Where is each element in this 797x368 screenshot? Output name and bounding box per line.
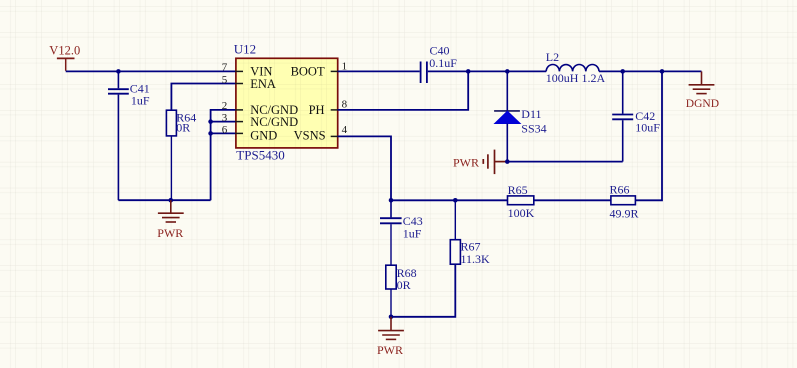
node junction pin6 <box>208 131 213 136</box>
pin 6 stub <box>235 132 243 134</box>
wire C42 bottom lead <box>622 120 624 161</box>
wire R68 bottom lead <box>390 289 392 317</box>
wire PH pin8 riser <box>338 71 469 110</box>
svg-text:D11: D11 <box>521 107 541 121</box>
wire feedback row <box>391 199 508 201</box>
wire BOOT to C40 <box>338 70 420 72</box>
svg-text:1uF: 1uF <box>403 226 422 240</box>
pin 2 stub <box>235 109 243 111</box>
svg-text:V12.0: V12.0 <box>49 44 80 58</box>
wire C42 top lead <box>622 71 624 113</box>
svg-text:PWR: PWR <box>157 226 183 240</box>
node junction at C41 tap <box>116 69 121 74</box>
svg-text:10uF: 10uF <box>635 121 660 135</box>
wire pin6 stub <box>211 132 236 134</box>
wire C40 to PH node <box>428 70 546 72</box>
node junction PH riser <box>466 69 471 74</box>
node junction D11 anode <box>505 159 510 164</box>
diode D11 <box>494 110 520 112</box>
capacitor C42 <box>612 115 633 120</box>
svg-text:SS34: SS34 <box>521 122 546 136</box>
capacitor C41 <box>108 89 129 94</box>
svg-text:L2: L2 <box>546 50 559 64</box>
wire C43 to R68 <box>390 224 392 265</box>
svg-text:TPS5430: TPS5430 <box>236 148 284 163</box>
svg-text:0R: 0R <box>397 278 411 292</box>
wire ENA to R64 <box>171 84 236 111</box>
svg-text:100uH 1.2A: 100uH 1.2A <box>546 71 606 85</box>
resistor R68 <box>386 265 396 289</box>
op-amp U12 body fill <box>236 58 338 148</box>
svg-text:11.3K: 11.3K <box>461 252 491 266</box>
wire R65 to R66 <box>534 199 611 201</box>
power port V12.0 <box>57 58 75 70</box>
node junction R67 tap <box>453 198 458 203</box>
node junction R64/ground <box>169 198 174 203</box>
svg-text:4: 4 <box>342 124 348 136</box>
node junction pin3 <box>208 119 213 124</box>
capacitor C43 <box>380 218 402 223</box>
svg-text:5: 5 <box>222 74 228 86</box>
resistor R65 <box>508 196 534 205</box>
wire pin3 stub <box>211 121 236 123</box>
ground PWR left <box>158 200 184 222</box>
wire C41 bottom lead <box>117 95 119 201</box>
ground PWR bottom <box>378 317 404 340</box>
wire VSNS pin4 <box>338 136 391 200</box>
inductor L2 <box>546 65 599 72</box>
op-amp U12 (IC body TPS5430) <box>236 58 338 148</box>
resistor R64 <box>166 110 176 136</box>
svg-text:R66: R66 <box>610 182 630 196</box>
svg-text:1uF: 1uF <box>131 94 150 108</box>
svg-text:VSNS: VSNS <box>294 128 326 142</box>
svg-text:0R: 0R <box>176 121 190 135</box>
pin 5 stub <box>235 83 243 85</box>
node junction bottom ground <box>389 315 394 320</box>
wire L2 to DGND corner <box>599 70 702 72</box>
pin 4 stub <box>331 135 339 137</box>
power port PWR (bar style) <box>483 150 506 175</box>
wire R66 riser to output rail <box>635 71 662 200</box>
svg-text:DGND: DGND <box>686 98 719 110</box>
svg-text:BOOT: BOOT <box>291 64 325 78</box>
svg-text:ENA: ENA <box>250 77 276 91</box>
wire C41 top lead <box>117 71 119 88</box>
wire pins 2/3/6 vertical bus <box>211 110 236 200</box>
svg-text:2: 2 <box>222 100 228 112</box>
svg-text:3: 3 <box>222 112 228 124</box>
node junction D11 tap <box>505 69 510 74</box>
svg-text:PWR: PWR <box>377 343 403 357</box>
wire V12 rail to pin7 <box>66 70 236 72</box>
svg-text:GND: GND <box>250 128 277 142</box>
wire bottom-left horizontal <box>118 199 210 201</box>
node junction VSNS corner <box>389 198 394 203</box>
node junction C42 tap <box>620 69 625 74</box>
svg-text:49.9R: 49.9R <box>610 206 639 220</box>
pin 8 stub <box>331 109 339 111</box>
svg-text:PH: PH <box>309 103 325 117</box>
resistor R66 <box>611 196 636 205</box>
pin 7 stub <box>235 70 243 72</box>
svg-text:0.1uF: 0.1uF <box>429 56 457 70</box>
svg-text:100K: 100K <box>508 206 535 220</box>
wire bottom row to R67 <box>391 264 455 317</box>
ground DGND <box>701 71 703 84</box>
resistor R67 <box>450 240 460 265</box>
capacitor C43 lead <box>390 200 392 217</box>
svg-text:U12: U12 <box>234 41 256 56</box>
svg-text:8: 8 <box>342 99 348 111</box>
node junction R66 riser tap <box>660 69 665 74</box>
wire anode to C42 bottom <box>507 161 622 163</box>
svg-text:6: 6 <box>222 124 228 136</box>
svg-text:R65: R65 <box>508 183 528 197</box>
diode D11 cathode lead <box>506 71 508 111</box>
svg-text:PWR: PWR <box>453 155 479 169</box>
svg-text:7: 7 <box>222 62 228 74</box>
wire R67 top lead <box>454 200 456 239</box>
wire R64 bottom lead <box>170 136 172 200</box>
pin 3 stub <box>235 121 243 123</box>
svg-text:NC/GND: NC/GND <box>250 115 298 129</box>
pin 1 stub <box>331 70 339 72</box>
capacitor C40 <box>421 62 427 84</box>
